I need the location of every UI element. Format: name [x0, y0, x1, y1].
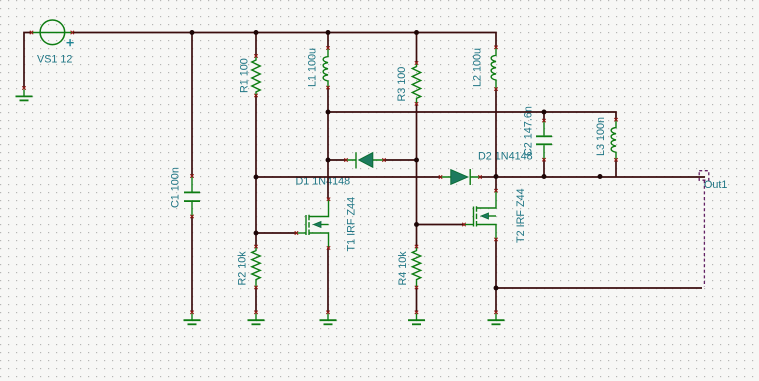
pin L2 top: [494, 46, 497, 49]
wire L3 bottom: [615, 160, 617, 177]
pin VS1 right: [71, 31, 74, 34]
svg-text:Out1: Out1: [704, 179, 727, 191]
pin VS1 ground: [22, 86, 25, 89]
svg-text:VS1 12: VS1 12: [37, 54, 72, 66]
ground (VS1): [16, 90, 33, 101]
svg-text:D2 1N4148: D2 1N4148: [478, 151, 533, 163]
wire to R2: [255, 233, 257, 247]
wire T2 drain: [495, 177, 497, 191]
node T2 source / out: [494, 286, 499, 291]
inductor L2: [491, 47, 496, 89]
pin ground T1: [326, 311, 329, 314]
node top rail / R1: [254, 30, 259, 35]
svg-text:R1 100: R1 100: [239, 58, 251, 93]
transistor T1 IRF Z44: [296, 199, 328, 248]
ground (T1 source): [320, 314, 337, 325]
wire bottom out: [496, 287, 702, 289]
pin T2 source: [494, 238, 497, 241]
wire T1 source to ground: [327, 248, 329, 312]
wire top rail: [72, 33, 496, 48]
pin ground C1: [190, 311, 193, 314]
wire D1 anode side: [384, 159, 417, 161]
svg-text:T1 IRF Z44: T1 IRF Z44: [346, 197, 358, 252]
pin C2 top: [542, 119, 545, 122]
pin R2 bottom: [254, 286, 257, 289]
pin C1 top: [190, 174, 193, 177]
label VS1 plus sign: [67, 39, 74, 46]
svg-text:L1 100u: L1 100u: [307, 48, 319, 87]
wire R2 bottom to ground: [255, 287, 257, 312]
wire D1 cathode side: [328, 159, 346, 161]
wire R1 top: [255, 33, 257, 57]
wire R3 top: [416, 33, 418, 64]
pin ground R2: [254, 311, 257, 314]
wire T1 drain: [327, 160, 329, 199]
ground (R2): [248, 314, 265, 325]
wire L1 top: [327, 33, 329, 49]
node C2 bottom: [542, 174, 547, 179]
wire R1 bottom to node: [255, 95, 257, 177]
resistor R1: [252, 56, 260, 95]
node D1 cathode / T1 drain: [326, 158, 331, 163]
wire node to ground: [495, 288, 497, 312]
pin L1 bottom: [326, 86, 329, 89]
node L3 bottom row: [598, 174, 603, 179]
voltage source VS1: [32, 20, 73, 45]
pin D2 cathode: [478, 175, 481, 178]
svg-text:C1 100n: C1 100n: [170, 167, 182, 208]
ground (T2 source): [488, 314, 505, 325]
resistor R2: [252, 247, 260, 288]
pin T1 drain: [327, 198, 330, 201]
svg-text:L2 100u: L2 100u: [472, 48, 484, 87]
ground (R4): [408, 314, 425, 325]
wire C1 top: [191, 33, 193, 177]
wire out row: [496, 176, 705, 178]
wire C1 bottom: [191, 216, 193, 312]
node top rail / C1: [190, 30, 195, 35]
pin R2 top: [254, 245, 257, 248]
wire T1 gate: [256, 232, 296, 234]
output terminal dashed lead: [703, 180, 705, 287]
wire T2 gate: [417, 224, 465, 226]
diode D2: [441, 169, 481, 185]
pin L3 top: [614, 118, 617, 121]
wire L1 bottom to node: [327, 88, 329, 112]
pin R3 top: [415, 61, 418, 64]
pin D1 cathode: [344, 158, 347, 161]
pin R1 top: [254, 54, 257, 57]
transistor T2 IRF Z44: [464, 191, 496, 240]
svg-text:R4 10k: R4 10k: [397, 251, 409, 286]
pin VS1 left: [30, 31, 33, 34]
pin C1 bottom: [190, 215, 193, 218]
node D2 cathode / L2 / T2 drain: [494, 174, 499, 179]
pin ground T2: [494, 311, 497, 314]
wire L1 node to D1 node: [327, 112, 329, 160]
output terminal Out1 dashed box: [699, 171, 709, 181]
wire top-left corner from VS1 to ground leg: [24, 33, 32, 89]
inductor L3: [611, 120, 616, 160]
svg-text:L3 100n: L3 100n: [595, 117, 607, 156]
pin R4 bottom: [415, 286, 418, 289]
pin T2 gate: [462, 223, 465, 226]
pin T2 drain: [494, 189, 497, 192]
pin marks: [22, 31, 617, 314]
diode D1: [346, 152, 384, 168]
wire D2 to node: [480, 176, 496, 178]
node C2 top: [542, 110, 547, 115]
svg-text:R3 100: R3 100: [396, 67, 408, 102]
pin L3 bottom: [614, 158, 617, 161]
pin D2 anode: [439, 175, 442, 178]
pin T1 gate: [295, 231, 298, 234]
inductor L1: [323, 48, 328, 88]
wire C2 top: [543, 112, 545, 121]
svg-text:C2 147.6n: C2 147.6n: [523, 106, 535, 156]
pin R3 bottom: [415, 102, 418, 105]
node top rail / R3: [414, 30, 419, 35]
pin ground R4: [415, 311, 418, 314]
wire right column to T2 gate node: [416, 160, 418, 225]
pin L1 top: [326, 46, 329, 49]
pin L2 bottom: [494, 87, 497, 90]
pin R4 top: [415, 245, 418, 248]
wire T2 source to node: [495, 239, 497, 288]
svg-text:T2 IRF Z44: T2 IRF Z44: [515, 188, 527, 243]
node D1 anode / R3: [414, 158, 419, 163]
wire D2 row left: [256, 176, 441, 178]
pin T1 source: [327, 246, 330, 249]
resistor R3: [412, 63, 420, 104]
node L1 / mid rail: [326, 110, 331, 115]
wire to R4: [416, 225, 418, 247]
capacitor C2: [536, 121, 552, 160]
pin C2 bottom: [542, 158, 545, 161]
pin R1 bottom: [254, 94, 257, 97]
wire R3 bottom: [416, 104, 418, 160]
pin D1 anode: [382, 158, 385, 161]
node R1 / D2 row: [254, 175, 259, 180]
resistor R4: [412, 247, 420, 288]
wire left column to T1 gate node: [255, 177, 257, 233]
wire C2 bottom: [543, 160, 545, 177]
ground (C1): [184, 314, 201, 325]
capacitor C1: [184, 176, 200, 216]
wire mid rail to L3: [328, 112, 616, 120]
svg-text:R2 10k: R2 10k: [237, 251, 249, 286]
node top rail / L1: [326, 30, 331, 35]
node T2 gate: [414, 222, 419, 227]
wire R4 bottom to ground: [416, 287, 418, 312]
node T1 gate: [254, 231, 259, 236]
wire L2 bottom: [495, 89, 497, 176]
